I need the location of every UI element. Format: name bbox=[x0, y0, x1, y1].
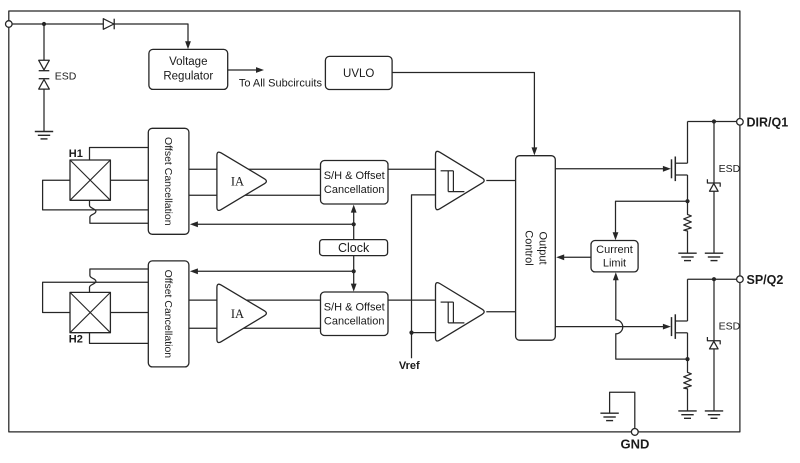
wire Offset Cancellation 1 to S/H (upper) bbox=[189, 168, 321, 170]
hysteresis symbol (comparator 1) bbox=[441, 171, 465, 192]
pin GND bbox=[621, 429, 650, 452]
node clock feedback junction 1 bbox=[352, 222, 356, 226]
arrow into Current Limit top bbox=[613, 232, 619, 240]
label ESD (DIR/Q1 clamp) bbox=[719, 163, 741, 175]
svg-text:Limit: Limit bbox=[603, 257, 626, 269]
wire Q2 source to Current Limit (hops gate wire) bbox=[616, 277, 688, 360]
wire Offset Cancellation 1 to S/H (lower) bbox=[189, 194, 321, 196]
wire clock feedback to Offset Cancellation 1 bbox=[196, 223, 354, 225]
wire H1 left terminal (wraps below) to Offset Cancellation bbox=[43, 180, 149, 210]
svg-text:Offset Cancellation: Offset Cancellation bbox=[162, 137, 174, 226]
label To All Subcircuits bbox=[239, 78, 323, 90]
wire Q1 drain rail to DIR/Q1 bbox=[688, 121, 740, 123]
block Current Limit bbox=[591, 241, 638, 272]
svg-text:Voltage: Voltage bbox=[169, 56, 207, 68]
comparator U2 (schmitt trigger, channel 2) bbox=[436, 283, 485, 341]
wire diode to regulator drop bbox=[114, 24, 188, 45]
ground (ESD clamp) bbox=[35, 132, 53, 139]
svg-text:Vref: Vref bbox=[399, 360, 420, 372]
svg-text:UVLO: UVLO bbox=[343, 68, 374, 80]
wire Clock to S/H 2 bbox=[353, 256, 355, 287]
wire Q1 source to Current Limit bbox=[616, 201, 688, 236]
wire clock feedback to Offset Cancellation 2 bbox=[196, 270, 354, 272]
svg-text:DIR/Q1: DIR/Q1 bbox=[747, 116, 789, 130]
arrow into Output Control top bbox=[532, 147, 538, 155]
wire S/H 1 to comparator 1 bbox=[388, 168, 436, 170]
wire Q2 drain rail to SP/Q2 bbox=[688, 278, 740, 280]
diode D1 (series supply diode) bbox=[103, 19, 114, 30]
svg-text:H2: H2 bbox=[69, 334, 83, 346]
svg-text:S/H & Offset: S/H & Offset bbox=[324, 301, 385, 313]
ground (R2) bbox=[678, 411, 696, 418]
label ESD (SP/Q2 clamp) bbox=[719, 321, 741, 333]
wire Current Limit to Output Control bbox=[561, 256, 591, 258]
svg-text:IA: IA bbox=[231, 307, 244, 321]
block S/H &amp; Offset Cancellation (channel 2) bbox=[321, 292, 389, 336]
node clock feedback junction 2 bbox=[352, 269, 356, 273]
wire Clock to S/H 1 bbox=[353, 209, 355, 239]
svg-text:GND: GND bbox=[621, 436, 650, 451]
block S/H &amp; Offset Cancellation (channel 1) bbox=[321, 161, 389, 205]
svg-text:Cancellation: Cancellation bbox=[324, 184, 385, 196]
arrow into Offset Cancellation 2 right edge bbox=[190, 268, 198, 274]
wire H1 bottom terminal (hops crossing) to Offset Cancellation bbox=[90, 200, 149, 223]
svg-text:To All Subcircuits: To All Subcircuits bbox=[239, 78, 323, 90]
diode ESD zener (DIR/Q1) bbox=[707, 122, 720, 254]
label Vref bbox=[399, 360, 420, 372]
arrow into S/H 1 bottom bbox=[351, 205, 357, 213]
block Output Control bbox=[516, 156, 556, 341]
block UVLO bbox=[325, 56, 392, 89]
block Clock bbox=[320, 240, 388, 256]
svg-text:SP/Q2: SP/Q2 bbox=[747, 273, 784, 287]
node Q2 source junction bbox=[685, 357, 689, 361]
arrow into Q1 gate bbox=[663, 166, 671, 172]
ground (R1) bbox=[678, 253, 696, 260]
block Offset Cancellation (channel 2) bbox=[148, 261, 189, 367]
svg-text:H1: H1 bbox=[69, 148, 83, 160]
transistor Q2 (output MOSFET) bbox=[672, 279, 688, 359]
wire H1 right terminal to Offset Cancellation bbox=[110, 179, 148, 181]
arrow into Current Limit bottom bbox=[613, 272, 619, 280]
wire VCC to ESD diodes bbox=[43, 24, 45, 60]
diode ESD zener (SP/Q2) bbox=[707, 279, 720, 411]
wire Offset Cancellation 2 to S/H (lower) bbox=[189, 327, 321, 329]
svg-text:Cancellation: Cancellation bbox=[324, 315, 385, 327]
label ESD (input clamp) bbox=[55, 70, 77, 82]
label H1 bbox=[69, 148, 83, 160]
wire H2 left terminal (wraps above) to Offset Cancellation bbox=[43, 282, 149, 312]
svg-text:Offset Cancellation: Offset Cancellation bbox=[162, 270, 174, 359]
node ESD branch junction (DIR/Q1 rail) bbox=[712, 119, 716, 123]
block Voltage Regulator bbox=[149, 49, 228, 89]
wire S/H 2 to comparator 2 bbox=[388, 299, 436, 301]
hall element H2 (crossed square) bbox=[70, 292, 110, 332]
wire Offset Cancellation 2 to S/H (upper) bbox=[189, 299, 321, 301]
arrow into Voltage Regulator bbox=[185, 41, 191, 49]
block Offset Cancellation (channel 1) bbox=[148, 128, 189, 234]
wire Output Control to Q1 gate bbox=[555, 168, 666, 170]
wire GND pin to internal ground bbox=[610, 392, 635, 428]
svg-text:ESD: ESD bbox=[719, 163, 741, 175]
diode ESD lower (cathode up) bbox=[39, 79, 50, 89]
arrow into Offset Cancellation 1 right edge bbox=[190, 221, 198, 227]
arrow into S/H 2 top bbox=[351, 284, 357, 292]
svg-text:ESD: ESD bbox=[55, 70, 77, 82]
ground (die substrate) bbox=[600, 413, 618, 420]
op-amp IA2 (instrumentation amplifier) bbox=[217, 284, 266, 342]
node Q1 source junction bbox=[685, 199, 689, 203]
svg-text:Current: Current bbox=[596, 244, 633, 256]
svg-text:ESD: ESD bbox=[719, 321, 741, 333]
wire ESD diodes to ground bbox=[43, 89, 45, 131]
resistor R1 (Q1 sense) bbox=[684, 201, 692, 253]
op-amp IA1 (instrumentation amplifier) bbox=[217, 152, 266, 210]
wire Output Control to Q2 gate bbox=[555, 326, 666, 328]
wire H2 right terminal to Offset Cancellation bbox=[110, 312, 148, 314]
arrow into Q2 gate bbox=[663, 324, 671, 330]
comparator U1 (schmitt trigger, channel 1) bbox=[436, 151, 485, 209]
wire Vref to comparator 2 bbox=[412, 332, 436, 334]
wire comparator 2 output to Output Control bbox=[486, 311, 515, 313]
hall element H1 (crossed square) bbox=[70, 160, 110, 200]
svg-text:Clock: Clock bbox=[338, 241, 370, 255]
node ESD branch junction (SP/Q2 rail) bbox=[712, 277, 716, 281]
wire VCC rail to diode bbox=[12, 23, 103, 25]
wire H2 top terminal (hops crossing) to Offset Cancellation bbox=[90, 269, 149, 292]
wire UVLO to Output Control bbox=[392, 73, 534, 151]
pin SP/Q2 bbox=[737, 273, 784, 287]
label H2 bbox=[69, 334, 83, 346]
ground (SP/Q2 ESD) bbox=[705, 411, 723, 418]
arrow Voltage Regulator output bbox=[228, 67, 264, 73]
hysteresis symbol (comparator 2) bbox=[441, 302, 465, 323]
diode ESD upper (cathode down) bbox=[39, 60, 50, 70]
svg-text:S/H & Offset: S/H & Offset bbox=[324, 170, 385, 182]
wire comparator 1 output to Output Control bbox=[486, 180, 515, 182]
svg-text:Regulator: Regulator bbox=[163, 71, 213, 83]
wire Vref rail bbox=[412, 195, 436, 358]
wire H2 bottom terminal to Offset Cancellation bbox=[90, 333, 149, 344]
svg-text:IA: IA bbox=[231, 175, 244, 189]
pin VCC input (top-left) bbox=[6, 21, 13, 28]
pin DIR/Q1 bbox=[737, 116, 789, 130]
resistor R2 (Q2 sense) bbox=[684, 359, 692, 411]
arrow into Output Control right edge bbox=[556, 254, 564, 260]
transistor Q1 (output MOSFET) bbox=[672, 122, 688, 202]
node VCC junction (ESD branch) bbox=[42, 22, 46, 26]
node Vref branch junction bbox=[409, 331, 413, 335]
ground (DIR/Q1 ESD) bbox=[705, 253, 723, 260]
wire H1 top terminal to Offset Cancellation bbox=[90, 148, 149, 161]
